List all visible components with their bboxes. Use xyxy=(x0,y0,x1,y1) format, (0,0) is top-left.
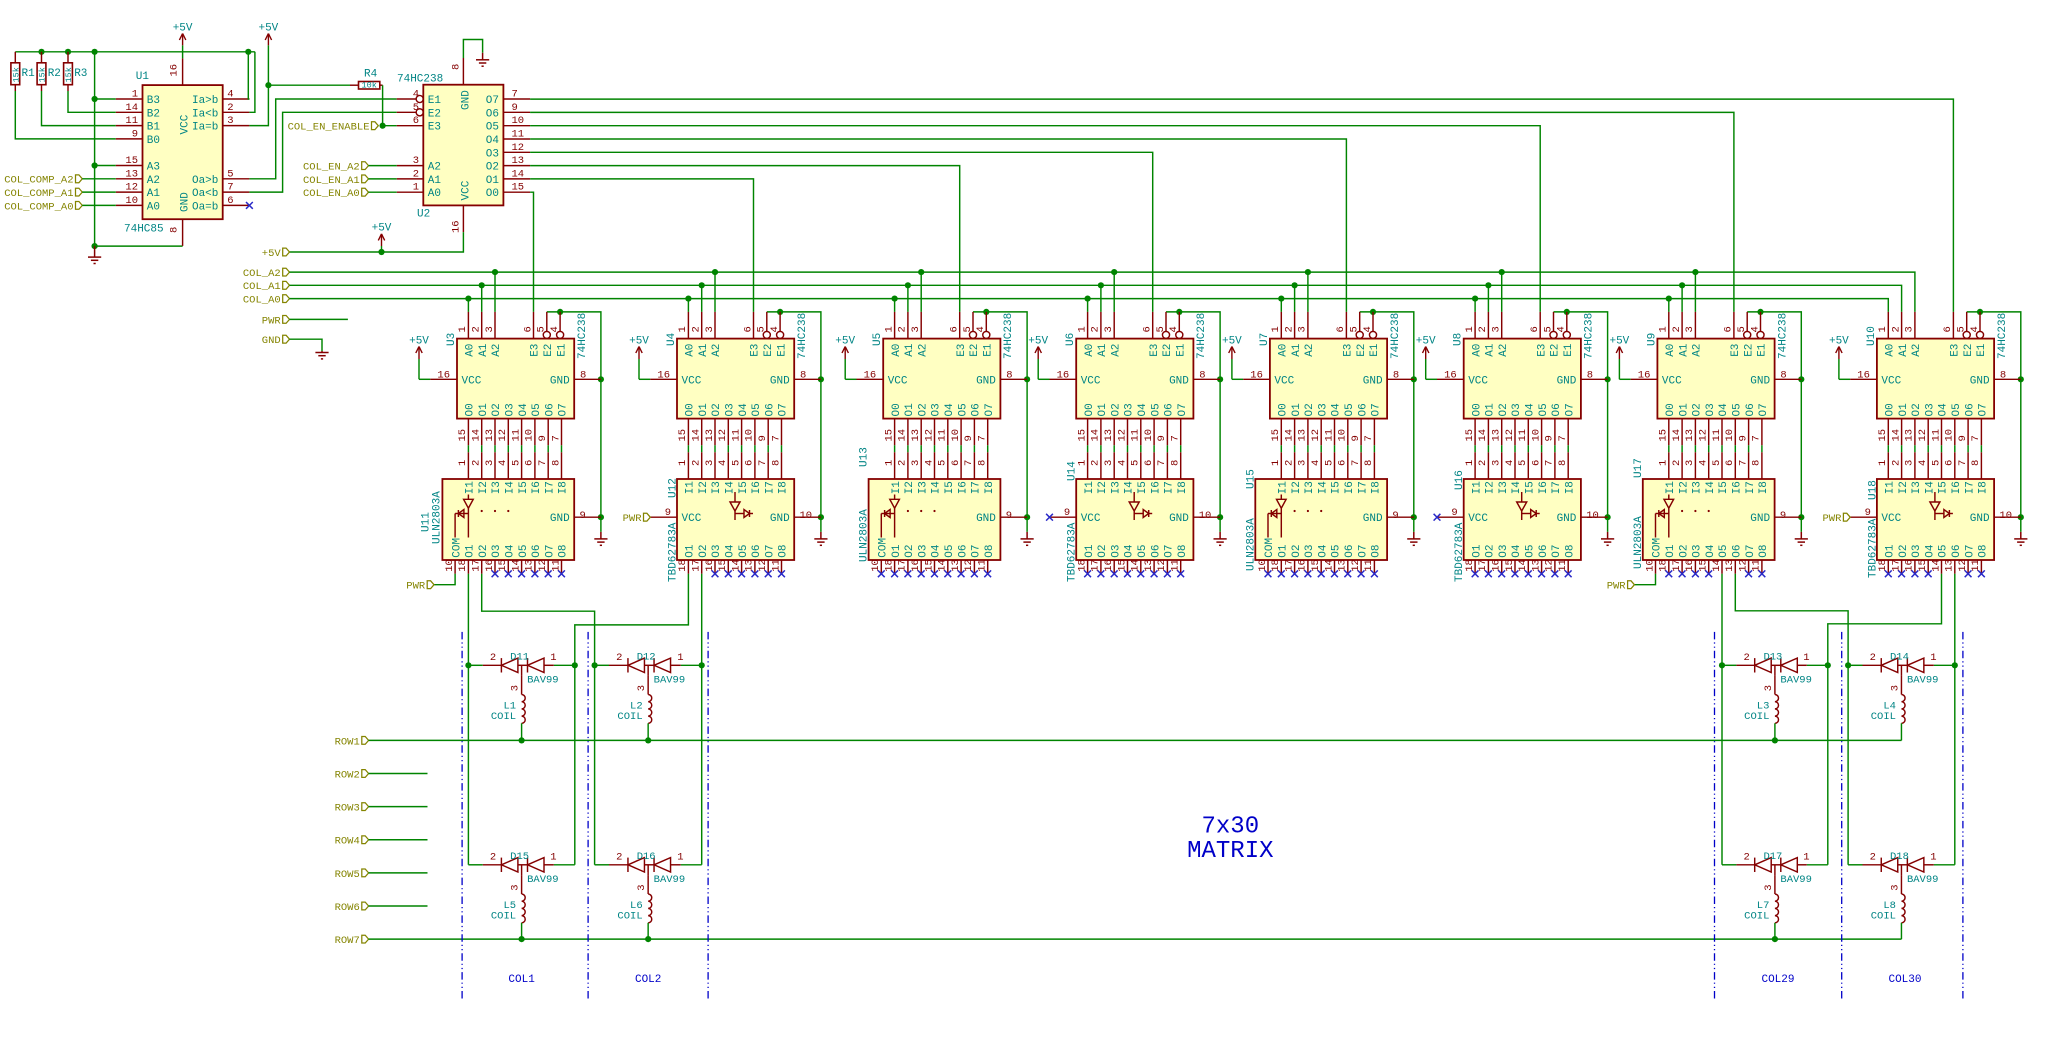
svg-text:15: 15 xyxy=(1658,429,1670,442)
svg-text:7: 7 xyxy=(963,460,975,466)
wire U3 outputs to U11 inputs xyxy=(467,445,469,452)
svg-text:16: 16 xyxy=(1857,369,1870,381)
wire U9 A2 tap xyxy=(1694,272,1696,312)
svg-text:17: 17 xyxy=(1477,559,1489,572)
svg-text:O0: O0 xyxy=(1471,403,1483,416)
transistor-array U17 ULN2803A xyxy=(1633,452,1801,574)
junction ROW7-L6 xyxy=(645,936,651,942)
svg-text:7: 7 xyxy=(550,435,562,441)
svg-text:E3: E3 xyxy=(1730,344,1742,357)
svg-text:I1: I1 xyxy=(1665,481,1677,495)
svg-text:74HC238: 74HC238 xyxy=(797,313,809,359)
svg-text:E3: E3 xyxy=(1950,344,1962,357)
no-connect U13 outputs xyxy=(891,570,991,577)
svg-text:O3: O3 xyxy=(1692,544,1704,557)
wire ROW2 xyxy=(369,773,428,775)
svg-text:6: 6 xyxy=(227,195,233,207)
junction D11 right xyxy=(572,662,578,668)
svg-text:2: 2 xyxy=(1671,326,1683,332)
svg-text:11: 11 xyxy=(1970,559,1982,572)
svg-text:5: 5 xyxy=(937,460,949,466)
svg-text:14: 14 xyxy=(1890,429,1902,442)
svg-text:I6: I6 xyxy=(1150,481,1162,494)
svg-text:2: 2 xyxy=(471,460,483,466)
wire +5V to U10 VCC xyxy=(1839,378,1850,380)
label ROW2 xyxy=(362,770,369,778)
svg-text:8: 8 xyxy=(1363,460,1375,466)
wire Oa<b to E2 xyxy=(249,112,396,192)
label COL_EN_ENABLE xyxy=(372,122,379,130)
svg-text:5: 5 xyxy=(1155,326,1167,332)
svg-text:12: 12 xyxy=(1737,559,1749,572)
svg-text:VCC: VCC xyxy=(1468,513,1488,525)
svg-text:I7: I7 xyxy=(1164,481,1176,494)
wire Ia>b to rail xyxy=(248,52,249,99)
wire U7 E1/E2 tie to ground net xyxy=(1360,312,1414,532)
svg-text:4: 4 xyxy=(923,460,935,466)
svg-text:11: 11 xyxy=(1170,559,1182,572)
svg-text:O0: O0 xyxy=(486,188,499,200)
svg-text:U6: U6 xyxy=(1065,333,1077,346)
junction A1 U9 xyxy=(1679,282,1685,288)
svg-text:O2: O2 xyxy=(711,403,723,416)
wire U10 outputs to U18 inputs xyxy=(1887,445,1889,452)
svg-text:10: 10 xyxy=(1199,510,1212,522)
svg-text:B1: B1 xyxy=(147,122,161,134)
svg-text:I5: I5 xyxy=(944,481,956,494)
svg-text:O5: O5 xyxy=(486,122,499,134)
junction A3 xyxy=(92,162,98,168)
svg-text:A0: A0 xyxy=(685,344,697,357)
svg-text:7x30: 7x30 xyxy=(1201,814,1259,841)
wire U2 VCC to +5V rail xyxy=(290,232,464,252)
svg-text:I3: I3 xyxy=(1911,481,1923,494)
svg-text:13: 13 xyxy=(1337,559,1349,572)
svg-text:1: 1 xyxy=(457,326,469,332)
svg-text:10: 10 xyxy=(125,195,138,207)
svg-text:9: 9 xyxy=(1156,435,1168,441)
svg-text:A1: A1 xyxy=(147,188,161,200)
svg-text:A2: A2 xyxy=(917,344,929,357)
svg-text:12: 12 xyxy=(757,559,769,572)
svg-text:O2: O2 xyxy=(486,162,499,174)
svg-text:ROW5: ROW5 xyxy=(335,869,360,881)
svg-text:9: 9 xyxy=(132,128,138,140)
svg-text:O1: O1 xyxy=(904,403,916,417)
svg-text:74HC238: 74HC238 xyxy=(1777,313,1789,359)
svg-text:12: 12 xyxy=(963,559,975,572)
svg-text:12: 12 xyxy=(497,429,509,442)
svg-text:18: 18 xyxy=(1270,559,1282,572)
svg-text:13: 13 xyxy=(1944,559,1956,572)
svg-text:O4: O4 xyxy=(931,544,943,558)
svg-text:E2: E2 xyxy=(1743,344,1755,357)
svg-text:O4: O4 xyxy=(1124,544,1136,558)
svg-text:U18: U18 xyxy=(1867,480,1879,500)
svg-text:15: 15 xyxy=(1504,559,1516,572)
svg-text:5: 5 xyxy=(536,326,548,332)
label PWR U12 xyxy=(644,513,651,521)
svg-text:11: 11 xyxy=(1930,429,1942,442)
wire VCC16 to rail xyxy=(182,52,184,59)
svg-text:O6: O6 xyxy=(531,544,543,557)
svg-text:A1: A1 xyxy=(1485,343,1497,357)
inductor L2 COIL xyxy=(617,676,651,741)
svg-text:A0: A0 xyxy=(1885,344,1897,357)
svg-text:ROW2: ROW2 xyxy=(335,769,360,781)
svg-text:4: 4 xyxy=(1969,326,1981,332)
svg-text:Ia>b: Ia>b xyxy=(192,95,218,107)
svg-text:I5: I5 xyxy=(738,481,750,494)
svg-text:E1: E1 xyxy=(1369,343,1381,357)
svg-text:7: 7 xyxy=(1970,435,1982,441)
svg-text:8: 8 xyxy=(1970,460,1982,466)
svg-text:2: 2 xyxy=(1890,460,1902,466)
svg-text:I5: I5 xyxy=(1525,481,1537,494)
svg-text:I8: I8 xyxy=(1371,481,1383,494)
svg-text:15: 15 xyxy=(125,155,138,167)
svg-text:74HC238: 74HC238 xyxy=(397,74,443,86)
inductor L3 COIL xyxy=(1744,676,1778,741)
junction E1 U8 xyxy=(1564,309,1570,315)
wire U8 A1 tap xyxy=(1487,285,1489,312)
svg-text:U13: U13 xyxy=(859,447,871,467)
svg-text:1: 1 xyxy=(677,851,683,863)
svg-text:16: 16 xyxy=(1904,559,1916,572)
svg-text:BAV99: BAV99 xyxy=(1780,874,1812,886)
svg-text:BAV99: BAV99 xyxy=(527,874,559,886)
svg-text:6: 6 xyxy=(950,460,962,466)
svg-text:I5: I5 xyxy=(518,481,530,494)
svg-text:COL_COMP_A1: COL_COMP_A1 xyxy=(4,188,73,200)
no-connect U16 VCC xyxy=(1434,514,1441,521)
svg-text:4: 4 xyxy=(975,326,987,332)
svg-text:9: 9 xyxy=(1957,435,1969,441)
svg-text:8: 8 xyxy=(1170,460,1182,466)
svg-text:D17: D17 xyxy=(1763,851,1782,863)
svg-text:U15: U15 xyxy=(1245,469,1257,489)
wire COL_COMP_A1 xyxy=(82,191,116,193)
svg-text:2: 2 xyxy=(897,460,909,466)
svg-text:A2: A2 xyxy=(428,162,441,174)
svg-text:+5V: +5V xyxy=(372,223,392,235)
svg-text:12: 12 xyxy=(512,142,525,154)
wire U11 O2 to COL2 left xyxy=(482,574,595,865)
junction GND8 U4 xyxy=(818,376,824,382)
svg-text:5: 5 xyxy=(1349,326,1361,332)
wire COL_A2 bus xyxy=(290,272,1915,312)
svg-text:1: 1 xyxy=(883,326,895,332)
svg-text:O6: O6 xyxy=(1951,544,1963,557)
inductor L5 COIL xyxy=(491,875,525,939)
wire U9 E1/E2 tie to ground net xyxy=(1747,312,1801,532)
junction D13 left xyxy=(1719,662,1725,668)
svg-text:O6: O6 xyxy=(1538,544,1550,557)
svg-text:2: 2 xyxy=(1744,652,1750,664)
svg-text:O1: O1 xyxy=(1678,403,1690,417)
resistor R1 xyxy=(11,52,35,91)
transistor-array U14 TBD62783A xyxy=(1050,452,1221,582)
svg-text:I8: I8 xyxy=(1978,481,1990,494)
svg-text:10: 10 xyxy=(444,559,456,572)
svg-text:1: 1 xyxy=(550,851,556,863)
svg-text:15: 15 xyxy=(883,429,895,442)
label GND stub xyxy=(283,335,290,343)
wire +5V to U5 VCC xyxy=(845,378,856,380)
svg-text:O3: O3 xyxy=(505,403,517,416)
ground U10/U18 xyxy=(2014,532,2027,545)
svg-text:O0: O0 xyxy=(1665,403,1677,416)
wire U7 A0 tap xyxy=(1280,299,1282,312)
label COL_COMP_A1 xyxy=(76,188,83,196)
svg-text:GND: GND xyxy=(1363,375,1383,387)
svg-text:COIL: COIL xyxy=(1744,711,1769,723)
svg-text:R2: R2 xyxy=(48,68,61,80)
svg-text:16: 16 xyxy=(169,64,181,77)
svg-text:O3: O3 xyxy=(1304,544,1316,557)
svg-text:O2: O2 xyxy=(1911,403,1923,416)
svg-text:U9: U9 xyxy=(1646,333,1658,346)
wire +5V to U9 VCC xyxy=(1619,378,1630,380)
svg-text:O1: O1 xyxy=(465,544,477,558)
svg-text:3: 3 xyxy=(1103,460,1115,466)
svg-text:13: 13 xyxy=(524,559,536,572)
svg-text:O3: O3 xyxy=(1317,403,1329,416)
ground U5/U13 xyxy=(1021,532,1034,545)
svg-text:3: 3 xyxy=(484,460,496,466)
svg-text:U4: U4 xyxy=(666,332,678,346)
svg-text:ROW3: ROW3 xyxy=(335,803,360,815)
svg-text:5: 5 xyxy=(510,460,522,466)
svg-text:4: 4 xyxy=(1917,460,1929,466)
svg-text:VCC: VCC xyxy=(1662,375,1682,387)
svg-text:E2: E2 xyxy=(428,108,441,120)
svg-text:2: 2 xyxy=(1744,851,1750,863)
svg-text:11: 11 xyxy=(937,429,949,442)
svg-text:1: 1 xyxy=(677,460,689,466)
svg-text:15: 15 xyxy=(717,559,729,572)
svg-text:9: 9 xyxy=(512,102,518,114)
svg-text:13: 13 xyxy=(1684,429,1696,442)
svg-text:O0: O0 xyxy=(1084,403,1096,416)
svg-text:15: 15 xyxy=(512,182,525,194)
wire U17 COM to PWR xyxy=(1634,574,1655,585)
svg-text:12: 12 xyxy=(717,429,729,442)
label COL_EN_A1 xyxy=(362,175,369,183)
svg-text:1: 1 xyxy=(1803,851,1809,863)
svg-text:O5: O5 xyxy=(518,544,530,557)
svg-text:4: 4 xyxy=(1116,460,1128,466)
power +5V U6 xyxy=(1037,359,1039,379)
svg-text:17: 17 xyxy=(1671,559,1683,572)
svg-text:O5: O5 xyxy=(531,403,543,416)
no-connect U14 VCC xyxy=(1046,514,1053,521)
svg-text:O2: O2 xyxy=(1898,544,1910,557)
svg-text:I8: I8 xyxy=(1177,481,1189,494)
svg-text:4: 4 xyxy=(1504,460,1516,466)
svg-text:1: 1 xyxy=(1877,326,1889,332)
svg-text:I7: I7 xyxy=(764,481,776,494)
svg-text:O1: O1 xyxy=(1097,403,1109,417)
svg-text:O7: O7 xyxy=(544,544,556,557)
svg-text:D11: D11 xyxy=(510,651,529,663)
svg-text:E1: E1 xyxy=(1176,343,1188,357)
svg-text:5: 5 xyxy=(1130,460,1142,466)
diode D11 BAV99 xyxy=(468,651,574,691)
svg-text:74HC238: 74HC238 xyxy=(1584,313,1596,359)
svg-text:7: 7 xyxy=(227,182,233,194)
svg-text:10: 10 xyxy=(1586,510,1599,522)
svg-text:COL_A1: COL_A1 xyxy=(243,281,281,293)
resistor R4 10k xyxy=(268,69,382,91)
svg-text:O8: O8 xyxy=(1758,544,1770,557)
svg-text:74HC238: 74HC238 xyxy=(1003,313,1015,359)
svg-text:I2: I2 xyxy=(1291,481,1303,494)
svg-text:U12: U12 xyxy=(668,478,680,498)
svg-text:COIL: COIL xyxy=(491,711,516,723)
svg-text:7: 7 xyxy=(1737,460,1749,466)
svg-text:10: 10 xyxy=(1944,429,1956,442)
svg-text:O7: O7 xyxy=(558,403,570,416)
svg-text:I8: I8 xyxy=(984,481,996,494)
svg-text:11: 11 xyxy=(1557,559,1569,572)
svg-text:9: 9 xyxy=(963,435,975,441)
svg-text:E3: E3 xyxy=(428,122,441,134)
svg-text:14: 14 xyxy=(1711,559,1723,572)
svg-text:O5: O5 xyxy=(1732,403,1744,416)
svg-text:10: 10 xyxy=(512,115,525,127)
svg-text:I3: I3 xyxy=(1692,481,1704,494)
svg-text:15: 15 xyxy=(457,429,469,442)
svg-text:2: 2 xyxy=(1477,326,1489,332)
svg-text:+5V: +5V xyxy=(1028,335,1048,347)
svg-text:O1: O1 xyxy=(1471,544,1483,558)
svg-text:U17: U17 xyxy=(1633,458,1645,478)
svg-text:16: 16 xyxy=(1491,559,1503,572)
svg-text:6: 6 xyxy=(1143,460,1155,466)
transistor-array U13 ULN2803A xyxy=(859,447,1027,574)
svg-text:10: 10 xyxy=(950,429,962,442)
svg-text:9: 9 xyxy=(1451,507,1457,519)
svg-text:I2: I2 xyxy=(1097,481,1109,494)
wire U8 A0 tap xyxy=(1474,299,1476,312)
svg-text:O4: O4 xyxy=(505,544,517,558)
svg-text:9: 9 xyxy=(757,435,769,441)
svg-text:O8: O8 xyxy=(1978,544,1990,557)
svg-text:COM: COM xyxy=(878,538,890,558)
svg-text:14: 14 xyxy=(1283,429,1295,442)
svg-text:1: 1 xyxy=(1076,326,1088,332)
transistor-array U18 TBD62783A xyxy=(1850,452,2021,578)
svg-text:+5V: +5V xyxy=(173,22,193,34)
svg-text:O7: O7 xyxy=(1177,403,1189,416)
svg-text:A1: A1 xyxy=(698,343,710,357)
svg-text:74HC85: 74HC85 xyxy=(124,224,164,236)
svg-text:I1: I1 xyxy=(891,481,903,495)
svg-text:74HC238: 74HC238 xyxy=(1997,313,2009,359)
svg-text:14: 14 xyxy=(125,102,138,114)
svg-text:A0: A0 xyxy=(891,344,903,357)
svg-text:2: 2 xyxy=(1090,460,1102,466)
svg-text:12: 12 xyxy=(1310,429,1322,442)
svg-text:1: 1 xyxy=(1930,851,1936,863)
svg-text:3: 3 xyxy=(413,155,419,167)
wire Oa>b to E1 xyxy=(249,99,396,179)
junction GND8 U3 xyxy=(598,376,604,382)
svg-text:BAV99: BAV99 xyxy=(654,674,686,686)
svg-text:O7: O7 xyxy=(1758,403,1770,416)
svg-text:COL_EN_A1: COL_EN_A1 xyxy=(303,175,360,187)
svg-text:+5V: +5V xyxy=(1222,335,1242,347)
diode D16 BAV99 xyxy=(595,851,702,891)
svg-text:I5: I5 xyxy=(1718,481,1730,494)
svg-text:O1: O1 xyxy=(1084,544,1096,558)
svg-text:+5V: +5V xyxy=(1609,335,1629,347)
wire ROW1 xyxy=(369,739,1902,741)
wire B3/A3/GND vertical net xyxy=(94,52,96,246)
svg-text:15: 15 xyxy=(923,559,935,572)
svg-text:I1: I1 xyxy=(1471,481,1483,495)
svg-text:14: 14 xyxy=(1130,559,1142,572)
wire U2 O5 to U8 E3 xyxy=(530,126,1540,312)
svg-text:11: 11 xyxy=(1517,429,1529,442)
svg-text:10: 10 xyxy=(744,429,756,442)
svg-text:2: 2 xyxy=(1283,326,1295,332)
svg-text:O0: O0 xyxy=(1885,403,1897,416)
svg-text:2: 2 xyxy=(471,326,483,332)
svg-text:O0: O0 xyxy=(465,403,477,416)
svg-text:O6: O6 xyxy=(1964,403,1976,416)
svg-text:2: 2 xyxy=(1671,460,1683,466)
svg-text:O4: O4 xyxy=(1317,544,1329,558)
svg-text:VCC: VCC xyxy=(1081,375,1101,387)
svg-text:9: 9 xyxy=(1865,507,1871,519)
wire U9 outputs to U17 inputs xyxy=(1668,445,1670,452)
svg-text:14: 14 xyxy=(937,559,949,572)
label ROW5 xyxy=(362,869,369,877)
svg-text:10k: 10k xyxy=(362,81,377,91)
wire U6 outputs to U14 inputs xyxy=(1087,445,1089,452)
junction D11 left xyxy=(465,662,471,668)
diode D12 BAV99 xyxy=(595,651,702,691)
junction D14 left xyxy=(1845,662,1851,668)
svg-text:D18: D18 xyxy=(1890,851,1909,863)
svg-text:7: 7 xyxy=(770,435,782,441)
svg-text:I6: I6 xyxy=(1344,481,1356,494)
junction A2 U6 xyxy=(1111,269,1117,275)
wire U6 A2 tap xyxy=(1113,272,1115,312)
svg-text:O6: O6 xyxy=(971,403,983,416)
svg-text:O1: O1 xyxy=(1278,544,1290,558)
inductor L1 COIL xyxy=(491,676,525,741)
svg-text:COL_A0: COL_A0 xyxy=(243,295,281,307)
no-connect U11 outputs xyxy=(492,570,565,577)
svg-text:13: 13 xyxy=(1297,429,1309,442)
svg-text:3: 3 xyxy=(1763,884,1775,890)
svg-text:18: 18 xyxy=(1658,559,1670,572)
svg-text:I3: I3 xyxy=(711,481,723,494)
svg-text:O4: O4 xyxy=(1511,544,1523,558)
svg-text:8: 8 xyxy=(1780,369,1786,381)
svg-text:U8: U8 xyxy=(1453,333,1465,346)
svg-text:12: 12 xyxy=(1350,559,1362,572)
svg-text:1: 1 xyxy=(1658,326,1670,332)
svg-text:15: 15 xyxy=(497,559,509,572)
svg-text:O4: O4 xyxy=(1718,403,1730,417)
svg-text:7: 7 xyxy=(977,435,989,441)
junction A1 U6 xyxy=(1098,282,1104,288)
wire U5 outputs to U13 inputs xyxy=(894,445,896,452)
